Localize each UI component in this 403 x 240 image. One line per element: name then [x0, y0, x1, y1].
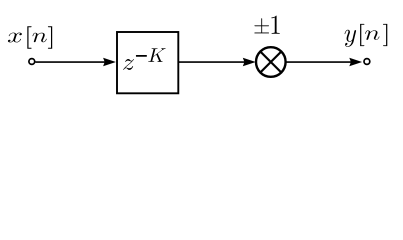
node y[n] output terminal	[364, 59, 370, 65]
wire from input node to delay block	[35, 61, 108, 63]
arrowhead into multiplier	[243, 58, 256, 67]
wire from delay block to multiplier	[179, 61, 247, 63]
label y[n]	[345, 24, 388, 47]
label z^-K	[123, 48, 165, 70]
node x[n] input terminal	[29, 59, 35, 65]
multiplier M1 (circle with X)	[256, 47, 286, 77]
delay block U1 (z^-K)	[117, 32, 178, 93]
wire from multiplier to output node	[286, 61, 354, 63]
label ±1	[254, 16, 279, 34]
label x[n]	[8, 26, 52, 48]
arrowhead into delay block	[103, 58, 116, 67]
arrowhead into output node	[349, 58, 362, 67]
